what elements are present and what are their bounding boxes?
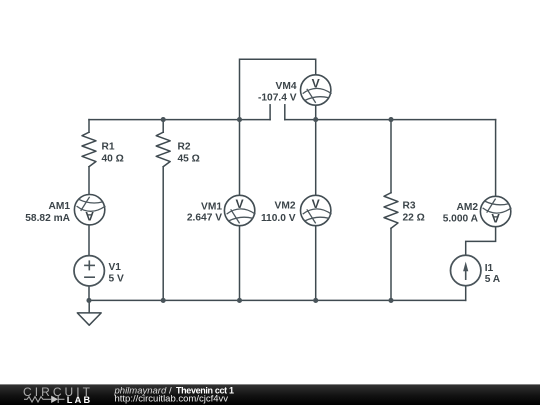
svg-text:58.82 mA: 58.82 mA	[25, 213, 70, 224]
svg-text:40 Ω: 40 Ω	[102, 153, 124, 164]
svg-text:R3: R3	[403, 200, 416, 211]
svg-text:5 A: 5 A	[485, 274, 501, 285]
svg-text:R1: R1	[102, 141, 115, 152]
svg-text:-107.4 V: -107.4 V	[258, 92, 297, 103]
svg-text:LAB: LAB	[67, 395, 92, 405]
svg-text:AM1: AM1	[48, 201, 70, 212]
svg-text:V1: V1	[109, 262, 122, 273]
svg-text:2.647 V: 2.647 V	[187, 213, 222, 224]
svg-text:VM2: VM2	[275, 200, 296, 211]
svg-text:5.000 A: 5.000 A	[443, 214, 479, 225]
svg-text:AM2: AM2	[456, 202, 478, 213]
svg-text:110.0 V: 110.0 V	[261, 213, 296, 224]
svg-text:I1: I1	[485, 263, 494, 274]
svg-text:5 V: 5 V	[109, 274, 124, 285]
svg-text:http://circuitlab.com/cjcf4vv: http://circuitlab.com/cjcf4vv	[115, 394, 229, 405]
svg-text:R2: R2	[178, 141, 191, 152]
svg-text:VM4: VM4	[276, 81, 297, 92]
svg-text:22 Ω: 22 Ω	[403, 212, 425, 223]
svg-text:45 Ω: 45 Ω	[178, 153, 200, 164]
svg-text:VM1: VM1	[201, 201, 222, 212]
